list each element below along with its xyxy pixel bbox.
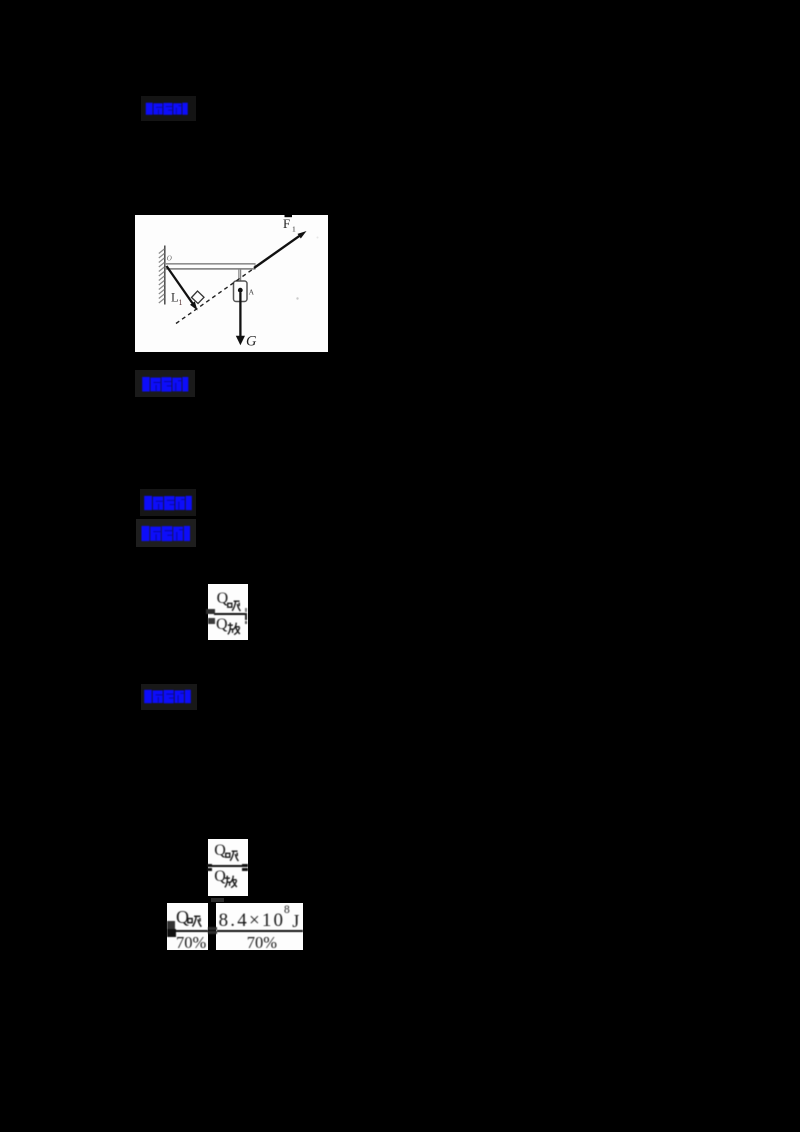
- right angle mark: [192, 291, 205, 304]
- equals between box3 left and right: [208, 927, 217, 930]
- Q (numerator) box1: [217, 590, 229, 608]
- dashed line of action: [176, 268, 255, 324]
- blue label 1 (【解析】): [144, 102, 190, 121]
- formula box 3 left: Q_abs / 70%: [167, 903, 208, 950]
- halo behind blue label 2: [135, 370, 195, 397]
- svg-text:G: G: [246, 334, 257, 350]
- blue label 2 (【点评】): [142, 376, 189, 398]
- lever arm arrow L1: [167, 266, 194, 304]
- left equals blob box1: [206, 609, 215, 615]
- Q (denominator) box2: [214, 868, 226, 886]
- formula box 2: Q_abs / Q_rel: [208, 839, 248, 896]
- Q (numerator) box2: [214, 842, 226, 860]
- left equals box2: [207, 864, 212, 867]
- right edge marks box1: [245, 608, 247, 612]
- faint speck: [296, 297, 298, 299]
- force arrow F1: [254, 235, 300, 268]
- Q (denominator) box1: [216, 616, 228, 634]
- svg-text:F: F: [283, 216, 290, 231]
- glyph fang box2: [224, 875, 239, 889]
- formula box 1: eta = Q_abs / Q_rel: [208, 584, 248, 641]
- glyph xi box2: [225, 849, 240, 863]
- svg-text:1: 1: [179, 298, 183, 307]
- 8.4 x 10^8 J box3 right: [219, 910, 286, 932]
- halo behind blue label 5: [141, 684, 197, 710]
- 70% box3 right: [247, 933, 277, 953]
- wall line: [164, 246, 166, 305]
- svg-text:O: O: [167, 255, 172, 263]
- wall hatching: [159, 249, 165, 303]
- blue label 3 (【答案】): [144, 495, 192, 516]
- svg-text:L: L: [171, 291, 179, 305]
- block A: [234, 281, 248, 302]
- formula box 3 right: 8.4e8 J / 70%: [216, 903, 304, 950]
- 70% box3 left: [176, 933, 206, 953]
- halo behind blue label 4: [136, 519, 196, 547]
- svg-text:A: A: [249, 288, 255, 297]
- lever bar (double line): [165, 263, 256, 265]
- right equals box2: [242, 864, 248, 867]
- block pivot dot: [238, 288, 243, 293]
- blue label 4 (【解析】): [141, 525, 191, 547]
- glyph xi (absorb) box1: [227, 599, 242, 613]
- weight arrow G: [239, 293, 241, 338]
- blue label 5 (【点评】): [144, 689, 191, 709]
- glyph fang (release) box1: [227, 622, 242, 636]
- figure: lever diagram white panel: [135, 215, 328, 352]
- glyph xi box3: [187, 914, 203, 929]
- left edge marks box3: [167, 921, 176, 929]
- svg-text:1: 1: [292, 225, 296, 234]
- halo behind blue label 3: [140, 489, 196, 516]
- fraction bar box3 left: [173, 930, 208, 932]
- halo behind blue label 1: [141, 96, 196, 121]
- black notch at top edge: [285, 215, 293, 217]
- Q box3: [176, 907, 189, 928]
- fraction bar box2: [209, 865, 243, 867]
- fraction bar box1: [214, 613, 247, 615]
- hanger from bar to block: [238, 270, 240, 282]
- gray blob below box2: [211, 898, 224, 902]
- fraction bar box3 right: [217, 930, 303, 932]
